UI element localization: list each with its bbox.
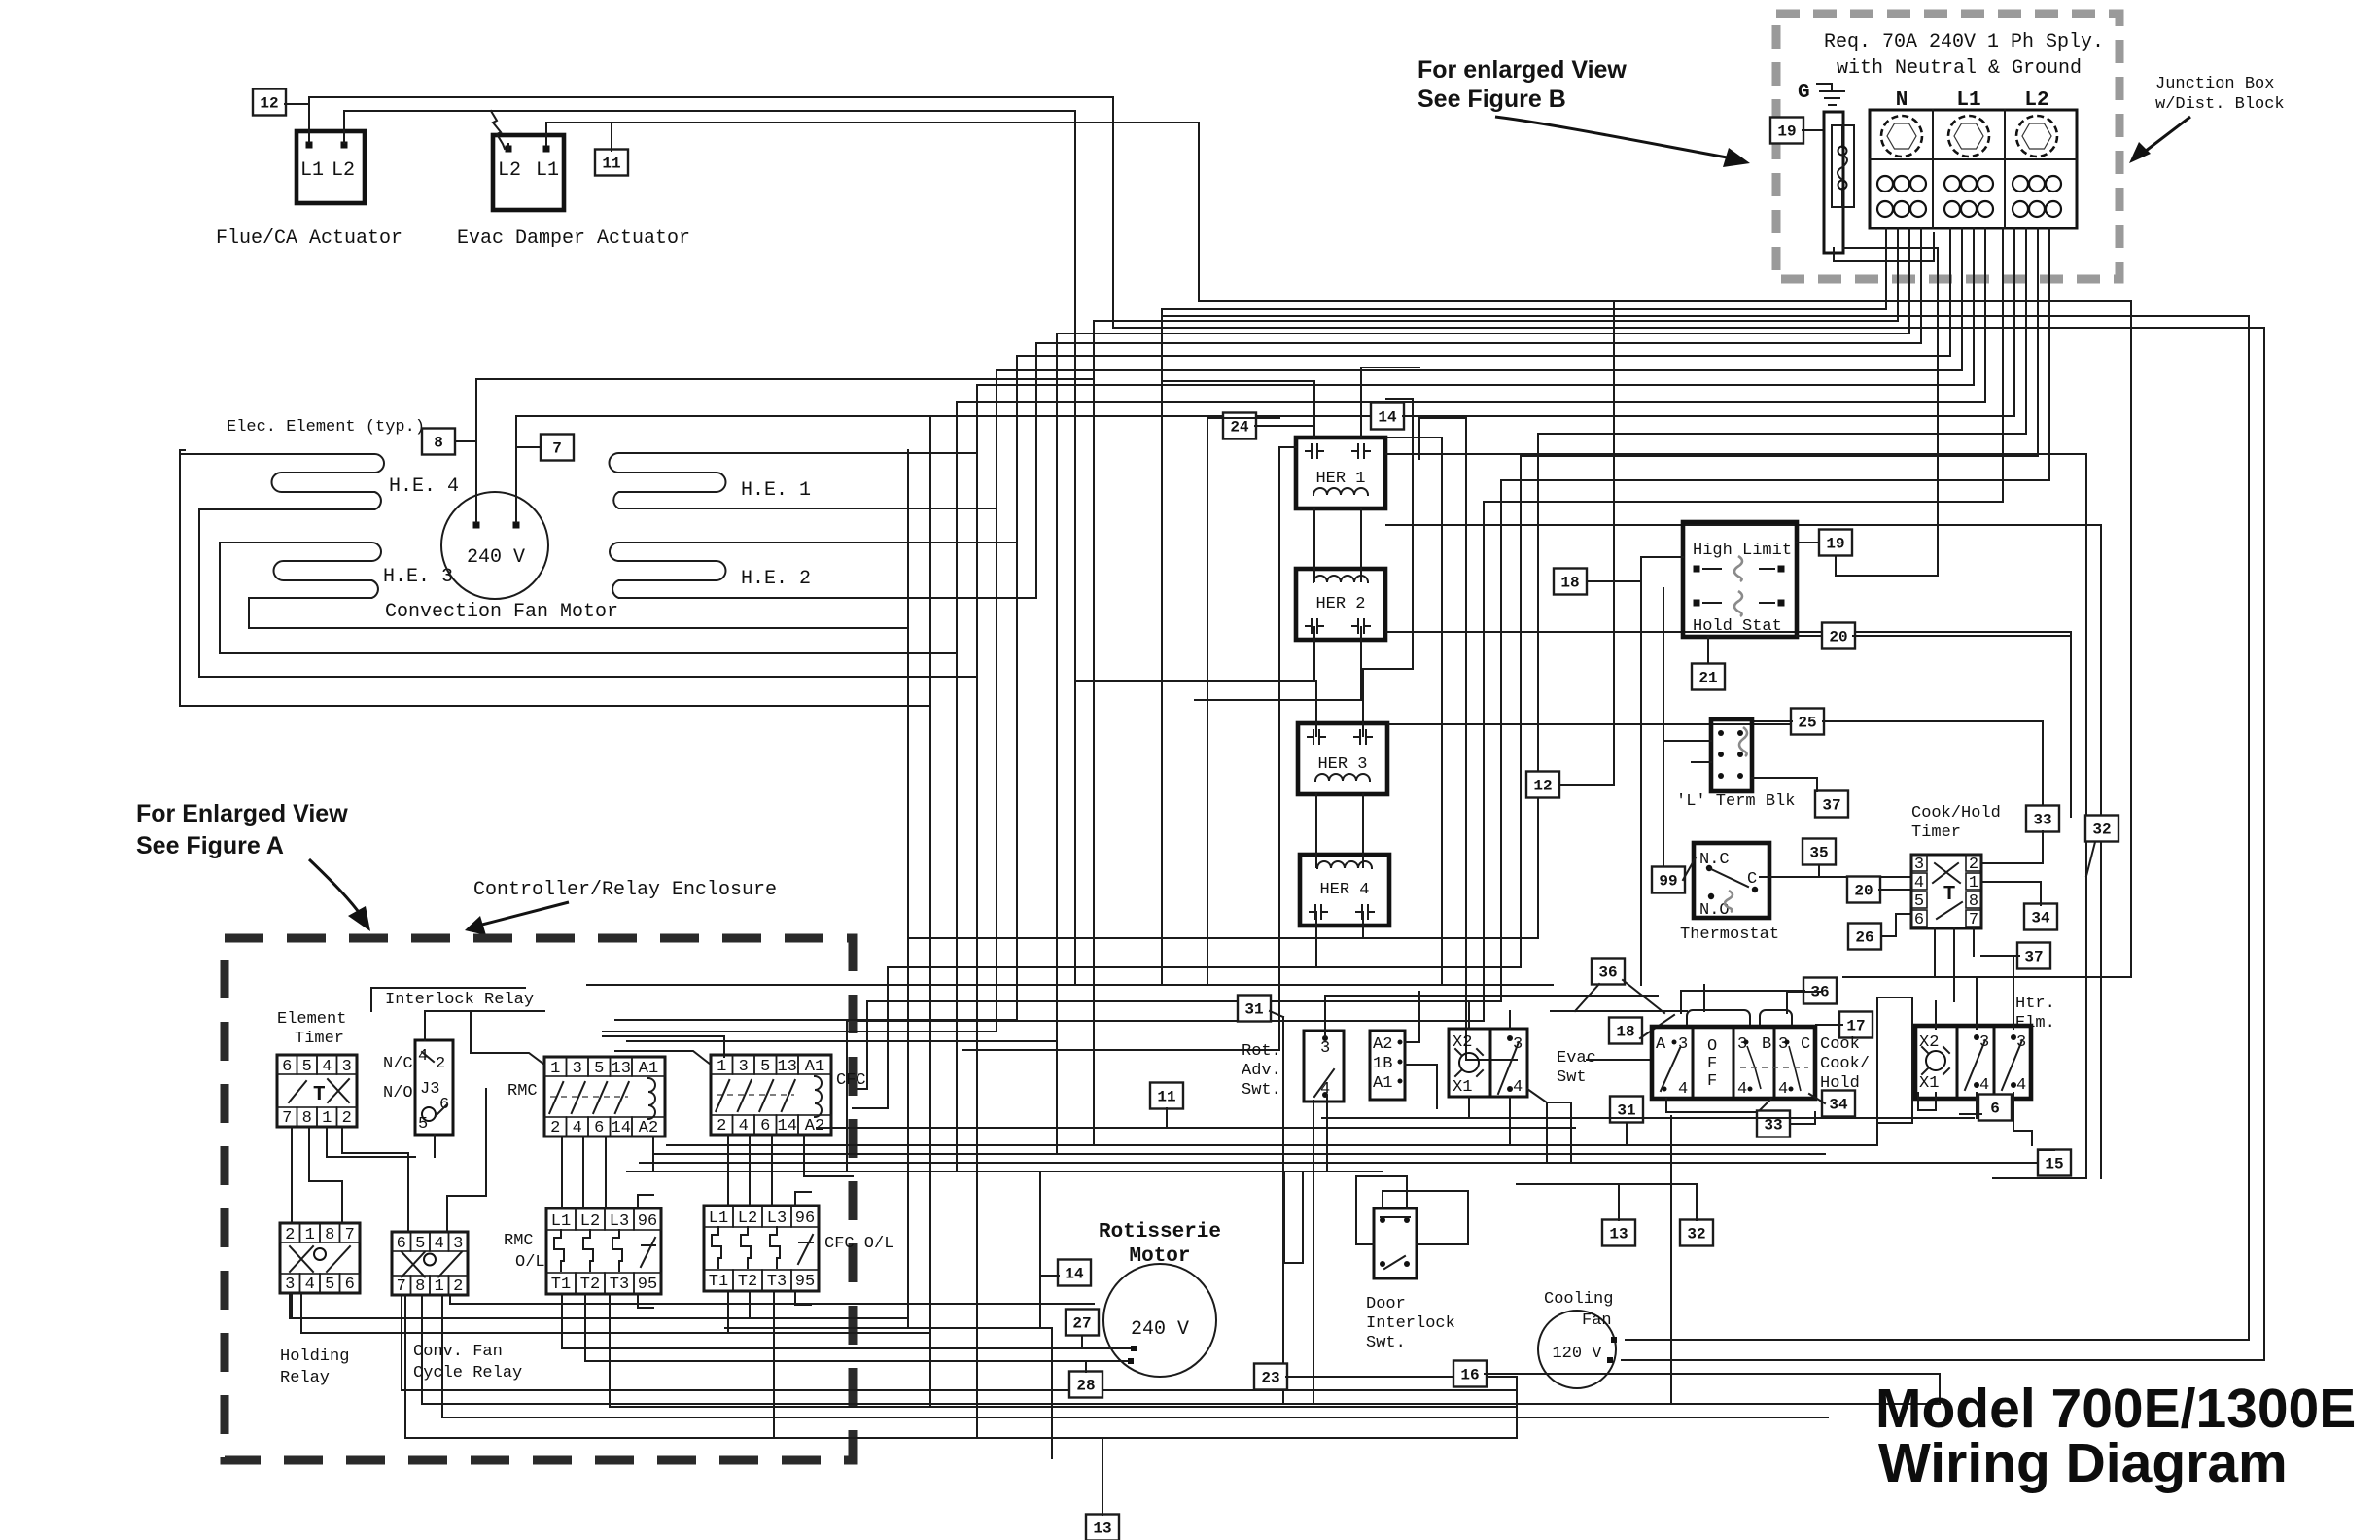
component Thermostat <box>1694 843 1769 918</box>
svg-text:240 V: 240 V <box>467 546 525 569</box>
svg-text:Evac Damper Actuator: Evac Damper Actuator <box>457 227 690 250</box>
wire door interlock frame <box>1382 1191 1468 1244</box>
wire RMC A2 drop <box>652 1137 654 1172</box>
wire tag99 link <box>1683 857 1696 880</box>
wire HER3 top risers <box>1315 681 1317 736</box>
svg-text:Fan: Fan <box>1582 1312 1612 1330</box>
component Flue/CA Actuator box <box>297 131 365 203</box>
relay Conv Fan Cycle Relay <box>392 1232 468 1295</box>
svg-text:1: 1 <box>550 1060 560 1078</box>
svg-text:4: 4 <box>573 1119 582 1137</box>
heater element H.E. 4 <box>180 454 384 509</box>
wire tag36a stub <box>1623 980 1664 1013</box>
wire column x1046 <box>1016 356 1018 1020</box>
wire selector A4 down run <box>1670 1116 1672 1404</box>
wire tag25 link <box>1752 720 1792 722</box>
component Evac Damper Actuator box <box>493 135 564 210</box>
wire HER surround left x1242 <box>1207 418 1208 985</box>
svg-text:H.E. 1: H.E. 1 <box>741 479 811 502</box>
wire OL T outputs <box>561 1294 563 1348</box>
svg-text:14: 14 <box>612 1119 631 1137</box>
heater element H.E. 3 <box>220 542 381 598</box>
svg-text:3: 3 <box>1778 1035 1788 1054</box>
svg-text:Timer: Timer <box>295 1030 344 1048</box>
svg-text:L1: L1 <box>536 159 559 182</box>
lamp Htr X2/X1 <box>1915 1026 2031 1099</box>
wire HER right ladder <box>1412 399 1414 669</box>
arrow to junction box <box>1495 117 1732 158</box>
node tag 32 <box>1680 1220 1713 1246</box>
node tag 25 <box>1791 709 1824 735</box>
wire tag11 stub <box>611 122 612 151</box>
svg-text:4: 4 <box>1778 1080 1788 1099</box>
node tag 12 <box>253 89 286 116</box>
wire top run L1 y100 <box>309 96 1113 98</box>
wire tag18b stub <box>1640 1015 1674 1038</box>
svg-text:Relay: Relay <box>280 1369 330 1387</box>
wire tag14b link <box>1040 1275 1059 1277</box>
svg-text:F: F <box>1707 1072 1717 1091</box>
svg-text:17: 17 <box>1846 1018 1865 1035</box>
wire thermostat C out <box>1760 876 1911 878</box>
wire long y1187 <box>653 1153 1825 1155</box>
wire thin rect right of selector <box>1877 997 1912 1145</box>
wire y1013 long <box>587 984 1553 986</box>
svg-text:99: 99 <box>1659 873 1677 891</box>
svg-text:6: 6 <box>1990 1101 2000 1118</box>
heater element H.E. 1 <box>610 453 997 508</box>
svg-text:6: 6 <box>760 1117 770 1136</box>
svg-text:C: C <box>1801 1035 1810 1054</box>
svg-text:Adv.: Adv. <box>1242 1062 1281 1080</box>
wire tag19b links <box>1797 542 1819 543</box>
wire zigzag to Evac L2 <box>491 111 505 149</box>
svg-text:Timer: Timer <box>1911 823 1961 842</box>
svg-text:T2: T2 <box>738 1273 757 1291</box>
svg-text:7: 7 <box>345 1226 355 1244</box>
svg-text:Flue/CA Actuator: Flue/CA Actuator <box>216 227 402 250</box>
svg-text:L2: L2 <box>580 1212 600 1231</box>
wire bundle junction box fanout staircase <box>1162 228 1886 309</box>
svg-text:28: 28 <box>1076 1378 1095 1395</box>
wire L2 run y114 <box>343 111 345 143</box>
wire tag16 link <box>1485 1373 1940 1375</box>
wire long y1205 <box>627 1171 1382 1172</box>
wire long y1196 <box>640 1162 2040 1164</box>
arrow to enclosure <box>309 859 364 919</box>
svg-text:4: 4 <box>2016 1076 2026 1095</box>
wire long y1366 <box>725 1327 1052 1329</box>
svg-text:A1: A1 <box>805 1058 824 1076</box>
rotisserie motor M2 <box>1103 1264 1216 1377</box>
ground symbol <box>1817 84 1844 105</box>
svg-text:See Figure B: See Figure B <box>1417 86 1566 113</box>
wire tag33b link <box>1790 1123 1815 1125</box>
node tag 15 <box>2038 1150 2071 1176</box>
svg-text:5: 5 <box>594 1060 604 1078</box>
wire timer right outline <box>2085 876 2087 1178</box>
wire tag14 link <box>1403 415 1419 417</box>
svg-text:Interlock Relay: Interlock Relay <box>385 991 534 1009</box>
wire column x871 <box>846 1021 848 1172</box>
svg-text:14: 14 <box>1065 1266 1084 1283</box>
svg-text:Controller/Relay Enclosure: Controller/Relay Enclosure <box>473 879 777 901</box>
node tag 31 <box>1610 1097 1643 1123</box>
node tag 6 <box>1978 1095 2012 1121</box>
wire right column x2313 <box>2248 316 2250 1340</box>
svg-text:24: 24 <box>1230 419 1249 437</box>
svg-text:Rot.: Rot. <box>1242 1042 1281 1061</box>
wire HER1 top risers <box>1313 381 1315 437</box>
svg-text:7: 7 <box>282 1109 292 1128</box>
node tag 7 <box>541 435 574 461</box>
wire holdstat bottom link <box>1707 637 1709 663</box>
node tag 20 <box>1822 623 1855 649</box>
wire fuse bottom exits <box>1834 233 1934 261</box>
svg-text:36: 36 <box>1598 964 1617 982</box>
fuse F1 <box>1824 112 1843 253</box>
svg-text:A1: A1 <box>1373 1074 1392 1093</box>
svg-text:4: 4 <box>322 1058 332 1076</box>
wire long y1447 <box>610 1406 1517 1408</box>
cooling fan motor <box>1538 1311 1616 1388</box>
svg-text:3: 3 <box>285 1276 295 1294</box>
component High Limit / Hold Stat <box>1683 522 1797 637</box>
svg-text:'L' Term Blk: 'L' Term Blk <box>1676 792 1795 811</box>
wire tag31b stub <box>1626 1123 1627 1145</box>
svg-text:2: 2 <box>1969 856 1978 874</box>
svg-text:G: G <box>1798 82 1810 104</box>
node tag 34 <box>1822 1091 1855 1117</box>
svg-text:13: 13 <box>1093 1521 1111 1538</box>
node tag 35 <box>1802 839 1836 865</box>
svg-text:2: 2 <box>453 1277 463 1296</box>
svg-text:1: 1 <box>322 1109 332 1128</box>
svg-text:RMC: RMC <box>504 1232 534 1250</box>
svg-text:5: 5 <box>302 1058 312 1076</box>
svg-text:7: 7 <box>552 440 562 458</box>
node tag 19 <box>1819 530 1852 556</box>
svg-text:5: 5 <box>325 1276 334 1294</box>
node tag 36 <box>1803 978 1837 1004</box>
svg-text:N.C: N.C <box>1699 851 1730 869</box>
svg-text:Model 700E/1300E: Model 700E/1300E <box>1875 1378 2356 1440</box>
node tag 14 <box>1058 1260 1091 1286</box>
wire evac link right <box>1547 1102 1571 1103</box>
svg-text:4: 4 <box>1737 1080 1747 1099</box>
node tag 99 <box>1652 867 1685 893</box>
wire enclosure out y1458 <box>441 1295 443 1417</box>
svg-text:Motor: Motor <box>1129 1245 1190 1268</box>
wire HER3-HER4 tube <box>1315 794 1317 867</box>
wire HER long link y650 <box>1386 631 2071 633</box>
svg-text:Thermostat: Thermostat <box>1680 926 1779 944</box>
svg-text:1B: 1B <box>1373 1055 1392 1073</box>
wire htr lamp stubs <box>1918 1093 1936 1110</box>
wire tag36b stub <box>1681 990 1804 992</box>
svg-text:4: 4 <box>435 1235 444 1253</box>
wire long y1178 <box>667 1144 1877 1146</box>
heater element H.E. 2 <box>610 542 1036 598</box>
wire motor pin1 riser <box>475 379 477 522</box>
svg-text:34: 34 <box>2031 910 2050 927</box>
svg-text:RMC: RMC <box>507 1082 538 1101</box>
svg-text:31: 31 <box>1617 1102 1635 1120</box>
svg-text:4: 4 <box>305 1276 315 1294</box>
svg-text:35: 35 <box>1809 845 1828 862</box>
svg-text:6: 6 <box>397 1235 406 1253</box>
svg-text:32: 32 <box>1687 1226 1705 1243</box>
wire HER surround left x1316 <box>1278 447 1280 1050</box>
wire CFC top feeds <box>615 1019 1017 1021</box>
svg-text:95: 95 <box>795 1273 815 1291</box>
svg-text:For enlarged View: For enlarged View <box>1417 56 1627 84</box>
node tag 11 <box>595 150 628 176</box>
wire column x1195 <box>1161 309 1163 985</box>
wire J3 stubs <box>434 1135 436 1157</box>
node tag 37 <box>2017 943 2050 969</box>
wire tag27 link <box>1081 1336 1083 1348</box>
wire column x1087 <box>1056 333 1058 1154</box>
svg-text:8: 8 <box>325 1226 334 1244</box>
svg-text:with Neutral & Ground: with Neutral & Ground <box>1837 57 2082 80</box>
svg-text:3: 3 <box>573 1060 582 1078</box>
wire tag20b link <box>1879 889 1911 891</box>
svg-text:H.E. 2: H.E. 2 <box>741 568 811 590</box>
wire column x1025 <box>996 370 997 1032</box>
wire HER1-HER2 tube <box>1313 508 1315 581</box>
node tag 18 <box>1609 1018 1642 1044</box>
wire CFC A2 drop <box>803 1135 805 1176</box>
svg-text:CFC O/L: CFC O/L <box>824 1235 893 1253</box>
node tag 36 <box>1592 959 1625 985</box>
wire element hook 1 <box>180 450 930 706</box>
wire motor pin2 riser <box>515 416 517 522</box>
svg-text:2: 2 <box>436 1055 445 1073</box>
svg-text:120 V: 120 V <box>1552 1345 1602 1363</box>
svg-text:L2: L2 <box>738 1209 757 1228</box>
svg-text:L3: L3 <box>610 1212 629 1231</box>
svg-text:L2: L2 <box>332 159 355 182</box>
svg-text:5: 5 <box>1914 892 1924 911</box>
svg-text:37: 37 <box>1822 797 1840 815</box>
svg-text:15: 15 <box>2045 1156 2063 1173</box>
arrow controller label <box>478 902 569 926</box>
svg-text:T3: T3 <box>767 1273 787 1291</box>
node tag 31 <box>1238 996 1271 1022</box>
wire motor feed y1400 <box>585 1360 1131 1362</box>
svg-text:A1: A1 <box>639 1060 658 1078</box>
wire tag34 link <box>2040 882 2042 905</box>
svg-text:32: 32 <box>2092 822 2111 839</box>
svg-text:Swt.: Swt. <box>1366 1334 1406 1352</box>
overload RMC O/L <box>546 1208 661 1294</box>
svg-text:T3: T3 <box>610 1276 629 1294</box>
wire enclosure out y1371 <box>300 1293 302 1333</box>
node tag 26 <box>1848 924 1881 950</box>
wire tag34b link <box>1809 1094 1825 1103</box>
svg-text:11: 11 <box>602 156 620 173</box>
svg-text:Holding: Holding <box>280 1347 349 1366</box>
svg-text:95: 95 <box>638 1276 657 1294</box>
svg-text:Junction Box: Junction Box <box>2155 75 2274 93</box>
wire tag23 link <box>1286 1376 1517 1378</box>
svg-text:1: 1 <box>717 1058 726 1076</box>
wire enclosure out y1444 <box>421 1295 423 1404</box>
svg-text:8: 8 <box>415 1277 425 1296</box>
svg-text:8: 8 <box>302 1109 312 1128</box>
wire column x1005 <box>976 385 978 1438</box>
svg-text:High Limit: High Limit <box>1693 542 1792 560</box>
svg-text:Element: Element <box>277 1010 346 1029</box>
svg-text:X1: X1 <box>1452 1078 1472 1097</box>
wire enclosure out y1356 <box>289 1293 291 1318</box>
svg-text:19: 19 <box>1777 123 1796 141</box>
wire tag37b link <box>1981 955 2019 957</box>
svg-text:7: 7 <box>397 1277 406 1296</box>
relay Element Timer <box>277 1055 357 1127</box>
svg-text:w/Dist. Block: w/Dist. Block <box>2155 95 2285 114</box>
wire tag6 link <box>1960 1113 1981 1115</box>
svg-text:23: 23 <box>1261 1370 1279 1387</box>
svg-text:CFC: CFC <box>836 1071 866 1090</box>
svg-text:26: 26 <box>1855 929 1873 947</box>
svg-text:Conv. Fan: Conv. Fan <box>413 1343 503 1361</box>
svg-text:T: T <box>313 1084 326 1106</box>
node tag 19 <box>1770 118 1803 144</box>
svg-text:6: 6 <box>594 1119 604 1137</box>
svg-text:T: T <box>1943 884 1956 906</box>
svg-text:Wiring Diagram: Wiring Diagram <box>1878 1432 2288 1494</box>
svg-text:20: 20 <box>1854 883 1872 900</box>
switch Evac Swt <box>1490 1029 1527 1097</box>
relay HER 2 <box>1296 569 1385 640</box>
svg-text:A: A <box>1656 1035 1666 1054</box>
wire tag17 stub <box>1816 1024 1842 1026</box>
svg-text:3: 3 <box>1914 856 1924 874</box>
node tag 18 <box>1554 569 1587 595</box>
svg-text:4: 4 <box>1678 1080 1688 1099</box>
wire element hook 3 <box>220 542 957 653</box>
wire tag12b link <box>1558 784 1614 786</box>
svg-text:8: 8 <box>434 435 443 452</box>
node tag 20 <box>1847 877 1880 903</box>
wire HER long link y745 <box>1388 723 1792 725</box>
svg-text:Cook/Hold: Cook/Hold <box>1911 804 2001 822</box>
node tag 13 <box>1602 1220 1635 1246</box>
wire selector top stubs <box>1703 985 1705 1011</box>
svg-text:37: 37 <box>2024 949 2043 966</box>
svg-text:O/L: O/L <box>515 1253 545 1272</box>
svg-text:3: 3 <box>342 1058 352 1076</box>
wire Evac L1 run y126 <box>545 122 547 145</box>
wire HER2 bottom stubs <box>1313 627 1315 681</box>
svg-text:Htr.: Htr. <box>2015 995 2055 1013</box>
wire tag32 link <box>2086 842 2095 876</box>
node tag 33 <box>1757 1111 1790 1137</box>
connector J3 <box>415 1040 453 1135</box>
wire top right link y325 <box>1161 309 1163 316</box>
wire deep column x1106 <box>1074 111 1076 985</box>
wire staircase detour around HER stack <box>908 228 2026 938</box>
svg-text:L1: L1 <box>709 1209 728 1228</box>
svg-text:L1: L1 <box>551 1212 571 1231</box>
wire tag15 link <box>2040 1149 2054 1151</box>
svg-text:1: 1 <box>435 1277 444 1296</box>
svg-text:6: 6 <box>1914 911 1924 929</box>
svg-text:For Enlarged View: For Enlarged View <box>136 800 348 827</box>
node tag 12 <box>1526 772 1559 798</box>
relay HER 3 <box>1298 723 1387 794</box>
wire column x1125 <box>1093 321 1095 1145</box>
svg-text:7: 7 <box>1969 911 1978 929</box>
wire evac swt stubs <box>1468 1097 1470 1118</box>
svg-text:Cook/: Cook/ <box>1820 1055 1870 1073</box>
node tag 34 <box>2024 904 2057 930</box>
node tag 16 <box>1453 1361 1487 1387</box>
svg-text:L3: L3 <box>767 1209 787 1228</box>
svg-text:Elec. Element (typ.): Elec. Element (typ.) <box>227 418 425 437</box>
wire enclosure out y1341 <box>449 1295 451 1304</box>
wire timer to relays jog <box>342 1127 408 1232</box>
wire tag25 to tag33 <box>1823 720 2043 722</box>
wire tag19 to fuse <box>1802 129 1824 131</box>
svg-text:96: 96 <box>638 1212 657 1231</box>
svg-text:3: 3 <box>1737 1035 1747 1054</box>
svg-text:Swt.: Swt. <box>1242 1081 1281 1100</box>
wire Evac L2 stub <box>507 144 509 149</box>
wire column x957 <box>929 416 931 1407</box>
wire tag11b link <box>1166 1108 1168 1128</box>
wire motor feed y1387 <box>562 1347 1134 1349</box>
wire column x1066 <box>1035 343 1037 598</box>
node tag 23 <box>1254 1364 1287 1390</box>
svg-text:Evac: Evac <box>1557 1049 1596 1067</box>
node tag 17 <box>1839 1012 1872 1038</box>
contactor CFC <box>711 1055 831 1135</box>
wire tag35 link <box>1818 865 1820 877</box>
svg-text:2: 2 <box>717 1117 726 1136</box>
relay Holding Relay <box>280 1223 360 1293</box>
svg-text:8: 8 <box>1969 892 1978 911</box>
controller/relay enclosure dashed box <box>225 938 853 1460</box>
selector switch Cook <box>1652 1027 1815 1099</box>
node tag 27 <box>1066 1310 1099 1336</box>
svg-text:19: 19 <box>1826 536 1844 553</box>
wire selector bracket <box>1666 1099 1771 1112</box>
wire interlock relay frame <box>371 988 525 1011</box>
wire tag12 to riser <box>285 103 309 105</box>
svg-text:3: 3 <box>739 1058 749 1076</box>
wire RMC bottom to OL <box>561 1137 563 1208</box>
svg-text:21: 21 <box>1698 670 1717 687</box>
svg-text:13: 13 <box>612 1060 631 1078</box>
distribution block <box>1870 110 2077 228</box>
svg-text:A2: A2 <box>1373 1035 1392 1054</box>
svg-text:HER 3: HER 3 <box>1317 755 1367 774</box>
svg-text:2: 2 <box>550 1119 560 1137</box>
svg-text:O: O <box>1707 1037 1717 1056</box>
wire tag8 link <box>455 440 476 442</box>
svg-text:18: 18 <box>1560 575 1579 592</box>
svg-text:X1: X1 <box>1919 1074 1939 1093</box>
svg-text:18: 18 <box>1616 1024 1634 1041</box>
svg-text:X2: X2 <box>1919 1033 1939 1052</box>
wire tag7 link <box>516 446 542 448</box>
node tag 21 <box>1692 664 1725 690</box>
wire tag13b stub <box>1618 1184 1620 1220</box>
node tag 24 <box>1223 413 1256 439</box>
